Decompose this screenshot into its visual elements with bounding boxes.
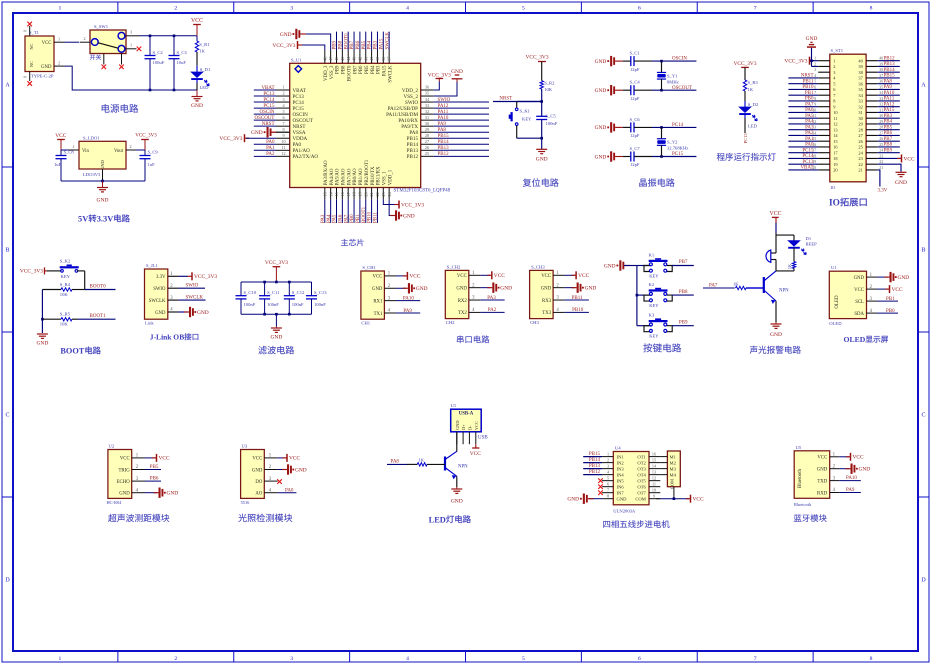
svg-text:GND: GND: [456, 286, 467, 291]
svg-text:1: 1: [59, 5, 62, 11]
svg-text:16: 16: [340, 192, 345, 196]
svg-text:VCC: VCC: [892, 287, 903, 293]
svg-text:VCC_3V3: VCC_3V3: [733, 61, 756, 67]
svg-text:S_R4: S_R4: [60, 282, 71, 287]
svg-text:BOOT1: BOOT1: [362, 206, 367, 223]
svg-text:PB15: PB15: [438, 134, 450, 139]
svg-text:12: 12: [833, 122, 837, 127]
svg-text:S_T1: S_T1: [29, 30, 40, 35]
svg-text:IN7: IN7: [617, 490, 625, 495]
svg-text:2: 2: [83, 36, 85, 41]
svg-text:PA4: PA4: [327, 214, 332, 223]
svg-text:U3: U3: [242, 444, 248, 449]
svg-text:21: 21: [369, 192, 374, 196]
svg-text:39: 39: [375, 57, 380, 61]
svg-text:VCC_3V3: VCC_3V3: [784, 59, 807, 65]
svg-text:VCC: VCC: [470, 451, 481, 457]
svg-text:PB4: PB4: [884, 120, 893, 125]
svg-text:29: 29: [425, 127, 429, 132]
svg-text:48: 48: [322, 57, 327, 61]
svg-text:BOOT0: BOOT0: [90, 284, 107, 289]
svg-text:D+: D+: [461, 424, 466, 430]
svg-text:GND: GND: [595, 59, 607, 65]
svg-text:S_Y2: S_Y2: [667, 140, 678, 145]
svg-text:GND: GND: [416, 286, 428, 292]
svg-text:D1: D1: [806, 236, 812, 241]
svg-text:U1: U1: [451, 403, 457, 408]
svg-text:7: 7: [282, 121, 284, 126]
svg-text:3: 3: [607, 463, 609, 468]
svg-text:GND: GND: [167, 491, 179, 497]
svg-text:PB11: PB11: [374, 212, 379, 223]
svg-text:RXD: RXD: [817, 491, 828, 496]
svg-text:SDA: SDA: [854, 312, 864, 317]
svg-text:V: V: [82, 215, 88, 224]
svg-text:GND: GND: [895, 180, 907, 186]
svg-text:OT3: OT3: [637, 466, 646, 471]
svg-text:SCL: SCL: [855, 300, 864, 305]
svg-text:100nF: 100nF: [314, 302, 326, 307]
svg-text:OT7: OT7: [637, 490, 646, 495]
svg-text:5516: 5516: [241, 500, 251, 505]
svg-text:5: 5: [607, 475, 609, 480]
svg-text:100nF: 100nF: [244, 302, 256, 307]
svg-text:KEY: KEY: [649, 273, 659, 278]
svg-text:PB8: PB8: [884, 143, 893, 148]
svg-text:3: 3: [282, 97, 284, 102]
svg-text:Bluetooth: Bluetooth: [798, 468, 803, 488]
svg-text:OT5: OT5: [637, 478, 646, 483]
svg-text:PA8: PA8: [884, 79, 893, 84]
svg-text:7: 7: [754, 656, 757, 662]
svg-text:U4: U4: [615, 446, 621, 451]
svg-text:S_K2: S_K2: [60, 258, 71, 263]
svg-text:GND: GND: [251, 130, 263, 136]
svg-text:GND: GND: [372, 287, 383, 292]
svg-text:12: 12: [652, 475, 656, 480]
svg-text:1: 1: [607, 451, 609, 456]
svg-text:PB12: PB12: [438, 152, 450, 157]
svg-text:S_R3: S_R3: [748, 80, 759, 85]
svg-text:PA7: PA7: [344, 214, 349, 223]
svg-text:1: 1: [282, 85, 284, 90]
svg-text:S_C2: S_C2: [153, 50, 164, 55]
svg-text:S_C1: S_C1: [630, 51, 641, 56]
svg-text:GND: GND: [859, 467, 871, 473]
svg-text:2: 2: [58, 60, 60, 65]
svg-text:3: 3: [814, 68, 816, 72]
svg-text:S_CH1: S_CH1: [362, 265, 376, 270]
svg-text:1K: 1K: [419, 458, 425, 463]
svg-text:PB4: PB4: [368, 40, 373, 49]
svg-text:15: 15: [334, 192, 339, 196]
svg-text:VCC: VCC: [854, 288, 864, 293]
svg-text:PB12: PB12: [884, 56, 896, 61]
svg-text:K3: K3: [649, 313, 655, 318]
svg-text:D: D: [860, 335, 866, 344]
svg-text:PC15: PC15: [263, 104, 275, 109]
svg-text:1: 1: [59, 656, 62, 662]
svg-text:PB11/RX: PB11/RX: [377, 166, 382, 185]
svg-text:PB11: PB11: [803, 79, 814, 84]
svg-text:VBAT: VBAT: [800, 166, 813, 171]
svg-text:18: 18: [352, 192, 357, 196]
svg-text:VCC: VCC: [191, 18, 203, 24]
svg-text:VCC_3V3: VCC_3V3: [428, 72, 451, 78]
svg-text:VCC: VCC: [474, 421, 479, 430]
svg-text:PC13: PC13: [743, 133, 748, 144]
svg-text:CH2: CH2: [446, 320, 455, 325]
svg-text:2: 2: [129, 144, 131, 149]
svg-text:10: 10: [652, 487, 656, 492]
svg-text:PB6: PB6: [359, 65, 364, 74]
svg-text:TRIG: TRIG: [118, 468, 130, 473]
svg-text:11: 11: [652, 481, 656, 486]
svg-text:CH1: CH1: [361, 321, 370, 326]
svg-text:PB3: PB3: [374, 40, 379, 49]
svg-text:K1: K1: [649, 253, 655, 258]
svg-text:PA6/AO: PA6/AO: [342, 168, 347, 185]
svg-text:GND: GND: [97, 198, 109, 204]
svg-text:PB9: PB9: [333, 40, 338, 49]
svg-text:23: 23: [381, 192, 386, 196]
svg-text:KEY: KEY: [649, 334, 659, 339]
svg-text:PB3: PB3: [377, 65, 382, 74]
svg-text:BEEP: BEEP: [806, 242, 818, 247]
svg-text:PB0: PB0: [805, 97, 814, 102]
svg-text:OLED: OLED: [829, 321, 842, 326]
svg-text:VCC_3V3: VCC_3V3: [525, 54, 548, 60]
svg-text:TYPE-C-2P: TYPE-C-2P: [31, 74, 54, 79]
svg-text:PB9: PB9: [336, 65, 341, 74]
svg-text:VCC: VCC: [817, 456, 827, 461]
svg-text:6: 6: [607, 481, 609, 486]
svg-text:B: B: [179, 333, 184, 342]
svg-text:IN5: IN5: [617, 478, 625, 483]
svg-text:PB7: PB7: [679, 260, 688, 265]
svg-text:0: 0: [23, 30, 28, 32]
svg-text:GND: GND: [155, 311, 166, 316]
svg-text:PA4/AO: PA4/AO: [330, 168, 335, 185]
svg-text:PB3: PB3: [884, 114, 893, 119]
svg-text:A: A: [5, 83, 10, 89]
svg-text:32: 32: [858, 104, 862, 109]
svg-text:PB9: PB9: [884, 148, 893, 153]
svg-text:S_C3: S_C3: [177, 50, 188, 55]
svg-text:S_CH3: S_CH3: [531, 264, 545, 269]
svg-text:S_C9: S_C9: [148, 150, 159, 155]
svg-text:2: 2: [174, 5, 177, 11]
svg-text:GND: GND: [252, 468, 263, 473]
svg-text:S_CH2: S_CH2: [447, 264, 461, 269]
svg-text:USB-A: USB-A: [459, 411, 474, 416]
svg-text:GND: GND: [595, 125, 607, 131]
svg-text:VCC: VCC: [770, 211, 782, 217]
svg-text:GND: GND: [451, 69, 463, 75]
svg-text:PA6: PA6: [805, 108, 814, 113]
svg-text:9: 9: [282, 133, 284, 138]
svg-text:8: 8: [870, 5, 873, 11]
svg-text:8: 8: [282, 127, 284, 132]
svg-text:GND: GND: [541, 286, 552, 291]
svg-text:PC15: PC15: [672, 152, 684, 157]
svg-text:B: B: [5, 248, 9, 254]
svg-text:KEY: KEY: [61, 274, 71, 279]
svg-text:VCC: VCC: [252, 457, 262, 462]
svg-text:OSCIN: OSCIN: [259, 110, 274, 115]
svg-text:Vout: Vout: [114, 149, 124, 154]
svg-text:PA2: PA2: [266, 152, 275, 157]
svg-text:PA0: PA0: [805, 143, 814, 148]
svg-text:PA12: PA12: [438, 104, 449, 109]
svg-text:NRST: NRST: [262, 122, 275, 127]
svg-text:32: 32: [425, 109, 429, 114]
svg-text:NC: NC: [29, 61, 34, 67]
svg-text:1K: 1K: [748, 87, 754, 92]
svg-text:12pF: 12pF: [630, 162, 640, 167]
svg-text:100nF: 100nF: [546, 121, 558, 126]
svg-text:GND: GND: [403, 213, 415, 219]
svg-text:GND: GND: [500, 285, 512, 291]
svg-text:Bluetooth: Bluetooth: [794, 502, 812, 507]
svg-text:2: 2: [174, 656, 177, 662]
svg-text:PA11: PA11: [884, 97, 895, 102]
svg-text:GND: GND: [119, 492, 130, 497]
svg-text:IN1: IN1: [617, 454, 625, 459]
svg-text:7: 7: [754, 5, 757, 11]
svg-text:31: 31: [858, 110, 862, 115]
svg-text:PB15: PB15: [589, 452, 601, 457]
svg-text:U5: U5: [796, 445, 802, 450]
svg-text:S_C5: S_C5: [546, 114, 557, 119]
svg-text:4: 4: [814, 74, 816, 78]
svg-text:VCC: VCC: [373, 275, 383, 280]
svg-text:PB14: PB14: [884, 68, 896, 73]
svg-text:PA7: PA7: [805, 102, 814, 107]
svg-text:PA5: PA5: [333, 214, 338, 223]
svg-text:8: 8: [870, 656, 873, 662]
svg-text:AO: AO: [255, 492, 262, 497]
svg-text:GND: GND: [280, 32, 292, 38]
svg-text:S_D1: S_D1: [200, 67, 211, 72]
svg-text:COM: COM: [635, 496, 645, 501]
svg-text:OT4: OT4: [637, 472, 646, 477]
svg-text:PB12: PB12: [589, 470, 601, 475]
svg-text:VCC: VCC: [159, 456, 170, 462]
svg-text:VCC: VCC: [120, 457, 130, 462]
svg-text:U1: U1: [831, 265, 837, 270]
svg-text:S_R5: S_R5: [60, 312, 71, 317]
svg-text:8MHz: 8MHz: [667, 79, 679, 84]
svg-text:RX1: RX1: [373, 299, 383, 304]
svg-text:22: 22: [858, 162, 862, 167]
svg-text:3.3V: 3.3V: [877, 189, 887, 194]
svg-text:VBAT: VBAT: [261, 86, 274, 91]
svg-text:S_C10: S_C10: [244, 290, 257, 295]
svg-text:PB1: PB1: [805, 91, 814, 96]
svg-text:LED: LED: [748, 124, 758, 129]
svg-text:PC14: PC14: [672, 123, 684, 128]
svg-text:4: 4: [406, 656, 409, 662]
svg-text:47: 47: [328, 57, 333, 61]
svg-text:PB1/AO: PB1/AO: [359, 168, 364, 185]
svg-text:2: 2: [833, 64, 835, 69]
svg-text:30: 30: [425, 121, 429, 126]
svg-text:GND: GND: [617, 496, 628, 501]
svg-text:PA3/RX/AO: PA3/RX/AO: [324, 160, 329, 185]
svg-text:HC-R04: HC-R04: [107, 500, 123, 505]
svg-text:IN3: IN3: [617, 466, 625, 471]
svg-text:GND: GND: [100, 160, 105, 170]
svg-text:PA5/AO: PA5/AO: [336, 168, 341, 185]
svg-text:3: 3: [290, 656, 293, 662]
svg-text:PA10: PA10: [438, 116, 449, 121]
svg-text:PC13: PC13: [802, 160, 814, 165]
svg-text:VSS_3: VSS_3: [330, 65, 335, 79]
svg-text:10K: 10K: [60, 322, 69, 327]
svg-text:S_C6: S_C6: [630, 117, 641, 122]
svg-text:PB13: PB13: [884, 62, 896, 67]
svg-text:S_Y1: S_Y1: [667, 73, 678, 78]
svg-text:KEY: KEY: [522, 117, 532, 122]
svg-text:OT6: OT6: [637, 484, 646, 489]
svg-text:IN4: IN4: [617, 472, 625, 477]
svg-text:K2: K2: [649, 282, 655, 287]
svg-text:KEY: KEY: [649, 303, 659, 308]
svg-text:PC15: PC15: [802, 148, 814, 153]
svg-text:PA5: PA5: [805, 114, 814, 119]
svg-text:VCC: VCC: [457, 274, 467, 279]
svg-text:S_JL1: S_JL1: [146, 263, 158, 268]
svg-text:S_C4: S_C4: [630, 80, 641, 85]
svg-text:31: 31: [425, 115, 429, 120]
svg-text:4: 4: [406, 5, 409, 11]
svg-text:STM32F103C8T6_LQFP48: STM32F103C8T6_LQFP48: [394, 189, 451, 194]
svg-text:PA11: PA11: [438, 110, 449, 115]
svg-text:1: 1: [833, 58, 835, 63]
svg-text:PB12: PB12: [407, 154, 419, 160]
svg-text:S_K1: S_K1: [520, 109, 531, 114]
svg-text:PB0/AO: PB0/AO: [353, 168, 358, 185]
svg-text:100uF: 100uF: [153, 60, 165, 65]
svg-text:25: 25: [425, 151, 429, 156]
svg-text:NRST: NRST: [801, 74, 814, 79]
svg-text:21: 21: [879, 166, 883, 170]
svg-text:D-: D-: [467, 425, 472, 430]
svg-text:12pF: 12pF: [630, 96, 640, 101]
svg-text:PA10: PA10: [884, 91, 895, 96]
svg-text:S_C11: S_C11: [267, 290, 280, 295]
svg-text:5: 5: [522, 5, 525, 11]
svg-text:PA15: PA15: [379, 38, 384, 49]
svg-text:20: 20: [363, 192, 368, 196]
svg-text:2: 2: [814, 62, 816, 66]
svg-text:OSCIN: OSCIN: [672, 57, 687, 62]
svg-text:SWIO: SWIO: [438, 98, 451, 103]
svg-text:5: 5: [282, 109, 284, 114]
svg-text:PB7: PB7: [350, 40, 355, 49]
svg-text:C: C: [921, 413, 925, 419]
svg-text:1K: 1K: [787, 264, 792, 269]
svg-text:PB6: PB6: [884, 131, 893, 136]
svg-text:26: 26: [425, 145, 429, 150]
svg-text:LDO3V3: LDO3V3: [83, 172, 101, 177]
svg-text:40: 40: [369, 57, 374, 61]
svg-text:PA7/AO: PA7/AO: [347, 168, 352, 185]
svg-text:M2: M2: [670, 460, 677, 465]
svg-text:5: 5: [522, 656, 525, 662]
svg-text:S_LDO1: S_LDO1: [83, 135, 100, 140]
svg-text:6: 6: [638, 656, 641, 662]
svg-text:VCC_3V3: VCC_3V3: [272, 43, 295, 49]
svg-text:VCC: VCC: [289, 456, 300, 462]
svg-text:100nF: 100nF: [292, 302, 304, 307]
svg-text:PB7: PB7: [884, 137, 893, 142]
svg-text:12: 12: [281, 151, 285, 156]
svg-text:3: 3: [290, 5, 293, 11]
svg-text:35: 35: [425, 91, 429, 96]
svg-text:Vin: Vin: [82, 149, 90, 154]
svg-text:NPN: NPN: [779, 289, 789, 294]
svg-text:GND: GND: [806, 36, 818, 42]
svg-text:GND: GND: [191, 103, 203, 109]
svg-text:PB9: PB9: [679, 320, 688, 325]
svg-text:VCC: VCC: [42, 41, 52, 46]
svg-text:PB13: PB13: [438, 146, 450, 151]
svg-text:M1: M1: [670, 454, 677, 459]
svg-text:PB13: PB13: [589, 464, 601, 469]
svg-text:GND: GND: [854, 276, 865, 281]
svg-text:VCC: VCC: [853, 455, 864, 461]
svg-text:PB10: PB10: [368, 211, 373, 223]
svg-text:12pF: 12pF: [630, 67, 640, 72]
svg-text:16: 16: [652, 451, 656, 456]
svg-text:PA9: PA9: [884, 85, 893, 90]
svg-text:PB10/TX: PB10/TX: [371, 166, 376, 185]
svg-text:GND: GND: [898, 275, 910, 281]
svg-text:22: 22: [375, 192, 380, 196]
svg-text:IN6: IN6: [617, 484, 625, 489]
svg-text:CH3: CH3: [530, 320, 539, 325]
svg-text:PB5: PB5: [362, 40, 367, 49]
svg-text:GND: GND: [817, 468, 828, 473]
svg-text:PC14: PC14: [263, 98, 275, 103]
svg-text:V: V: [107, 215, 113, 224]
svg-text:SWIO: SWIO: [153, 287, 166, 292]
svg-text:43: 43: [352, 57, 357, 61]
svg-text:42: 42: [358, 57, 363, 61]
svg-text:PA15: PA15: [383, 65, 388, 76]
svg-text:RX2: RX2: [458, 299, 468, 304]
svg-text:1: 1: [130, 43, 132, 48]
svg-text:GND: GND: [536, 157, 548, 163]
svg-text:1: 1: [72, 144, 74, 149]
svg-text:M4: M4: [670, 472, 677, 477]
svg-text:PB5: PB5: [365, 65, 370, 74]
svg-text:S_U1: S_U1: [291, 58, 302, 63]
svg-text:IO: IO: [831, 185, 837, 190]
svg-text:BOOT1: BOOT1: [90, 314, 107, 319]
svg-text:3.3V: 3.3V: [156, 275, 166, 280]
svg-text:13: 13: [652, 469, 656, 474]
svg-text:GND: GND: [567, 496, 579, 502]
svg-text:OSCOUT: OSCOUT: [672, 86, 692, 91]
svg-text:7: 7: [814, 91, 816, 95]
svg-text:C: C: [5, 413, 9, 419]
svg-text:41: 41: [363, 57, 368, 61]
svg-text:USB: USB: [478, 436, 488, 441]
svg-text:10K: 10K: [60, 292, 69, 297]
